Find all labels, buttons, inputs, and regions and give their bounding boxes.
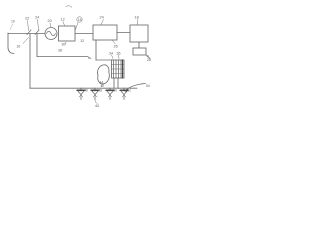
svg-text:46: 46 (84, 89, 88, 93)
svg-text:34: 34 (109, 52, 113, 56)
svg-text:28: 28 (147, 58, 151, 62)
svg-text:20: 20 (48, 19, 52, 23)
svg-text:24: 24 (35, 16, 39, 20)
svg-text:24: 24 (100, 16, 104, 20)
svg-text:14: 14 (78, 18, 82, 22)
svg-text:30: 30 (62, 43, 66, 47)
svg-text:38: 38 (58, 49, 62, 53)
svg-text:42: 42 (101, 84, 105, 88)
svg-text:40: 40 (95, 104, 99, 108)
svg-text:26: 26 (114, 45, 118, 49)
svg-text:52: 52 (127, 89, 131, 93)
svg-text:10: 10 (11, 20, 15, 24)
svg-text:48: 48 (98, 89, 102, 93)
svg-text:12: 12 (61, 18, 65, 22)
svg-text:18: 18 (135, 16, 139, 20)
svg-text:32: 32 (81, 39, 85, 43)
svg-text:50: 50 (113, 89, 117, 93)
svg-text:16: 16 (17, 45, 21, 49)
svg-text:22: 22 (25, 17, 29, 21)
svg-text:36: 36 (117, 52, 121, 56)
svg-text:54: 54 (146, 84, 150, 88)
